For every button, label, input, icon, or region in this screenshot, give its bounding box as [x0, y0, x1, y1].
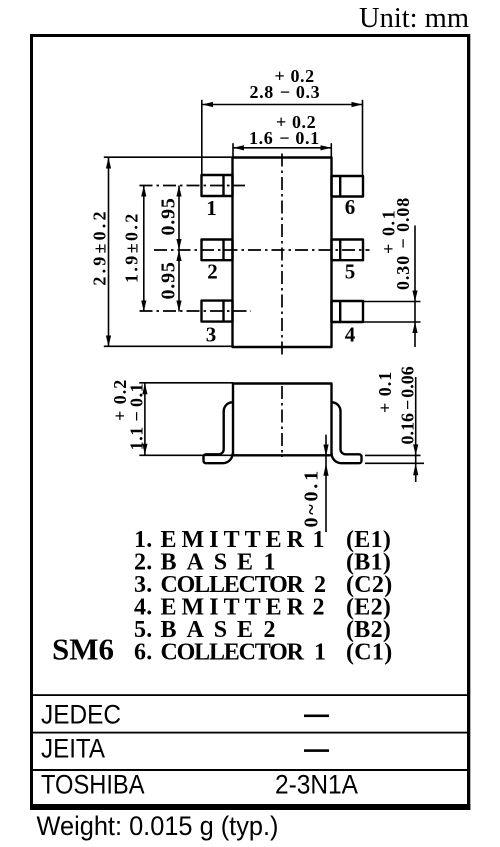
dimension 0.16 (lead thickness) [365, 366, 424, 482]
dimension 2.8 (total width) [202, 66, 363, 176]
dimension 1.1 (body height side) [110, 379, 233, 456]
dimension 0.30 (pin width) [363, 197, 421, 347]
body outline (side view) [233, 384, 332, 456]
table line 2 [33, 732, 467, 734]
svg-text:(C1): (C1) [346, 640, 393, 666]
body outline (top view) [233, 158, 332, 348]
svg-text:0.16 − 0.06: 0.16 − 0.06 [398, 366, 418, 444]
pin 3 center line [140, 310, 252, 312]
svg-text:EMITTER: EMITTER [161, 595, 305, 621]
svg-text:SM6: SM6 [52, 632, 114, 667]
svg-text:1: 1 [314, 640, 326, 666]
side view center line [281, 386, 283, 457]
svg-text:3: 3 [206, 323, 217, 347]
svg-text:4: 4 [345, 323, 356, 347]
svg-text:Unit: mm: Unit: mm [359, 3, 469, 34]
pin 6 [332, 176, 364, 197]
svg-text:6.: 6. [134, 640, 153, 666]
svg-text:0~0.1: 0~0.1 [301, 468, 323, 527]
svg-text:1.9±0.2: 1.9±0.2 [122, 211, 142, 283]
svg-text:JEITA: JEITA [41, 734, 105, 764]
table line 1 [33, 694, 467, 696]
svg-text:5: 5 [345, 259, 356, 283]
dimension 0.95 x2 (pin pitch) [158, 186, 182, 312]
left lead (gull wing) [204, 402, 233, 463]
svg-text:COLLECTOR: COLLECTOR [161, 640, 305, 666]
dimension 1.9 (pin1-pin3) [122, 186, 147, 312]
svg-text:0.30 − 0.08: 0.30 − 0.08 [393, 197, 413, 290]
svg-text:2-3N1A: 2-3N1A [275, 770, 358, 800]
pin 4 [332, 301, 364, 322]
pin 1 center line [140, 185, 246, 187]
dimension 0~0.1 (standoff) [301, 435, 329, 532]
dimension 2.9 (body height) [90, 157, 233, 346]
svg-text:1.6 − 0.1: 1.6 − 0.1 [249, 128, 320, 148]
svg-text:JEDEC: JEDEC [41, 700, 121, 730]
vertical center line [281, 154, 283, 357]
svg-text:2.8 − 0.3: 2.8 − 0.3 [250, 82, 321, 102]
pin 1 [202, 175, 233, 196]
pin 3 [202, 301, 233, 322]
table line 3 [33, 769, 467, 771]
svg-text:0.95: 0.95 [158, 197, 180, 235]
svg-text:2: 2 [207, 259, 218, 283]
pin 2 [202, 240, 233, 261]
pin 5 [332, 240, 364, 261]
svg-text:1: 1 [313, 527, 325, 553]
svg-text:TOSHIBA: TOSHIBA [41, 770, 145, 800]
dimension 1.6 (body width) [233, 112, 332, 158]
svg-text:2: 2 [313, 595, 325, 621]
svg-text:6: 6 [345, 195, 356, 219]
right lead (gull wing) [332, 402, 362, 463]
svg-text:Weight: 0.015 g (typ.): Weight: 0.015 g (typ.) [37, 811, 279, 841]
horizontal center line pins 2-5 [154, 249, 370, 251]
PIN LIST [134, 527, 393, 666]
svg-text:EMITTER: EMITTER [161, 527, 305, 553]
svg-text:0.95: 0.95 [158, 261, 180, 299]
svg-text:1: 1 [206, 196, 217, 220]
svg-text:+ 0.1: + 0.1 [375, 371, 395, 413]
svg-text:1.1 − 0.1: 1.1 − 0.1 [127, 383, 147, 451]
svg-text:2.9±0.2: 2.9±0.2 [90, 208, 110, 285]
